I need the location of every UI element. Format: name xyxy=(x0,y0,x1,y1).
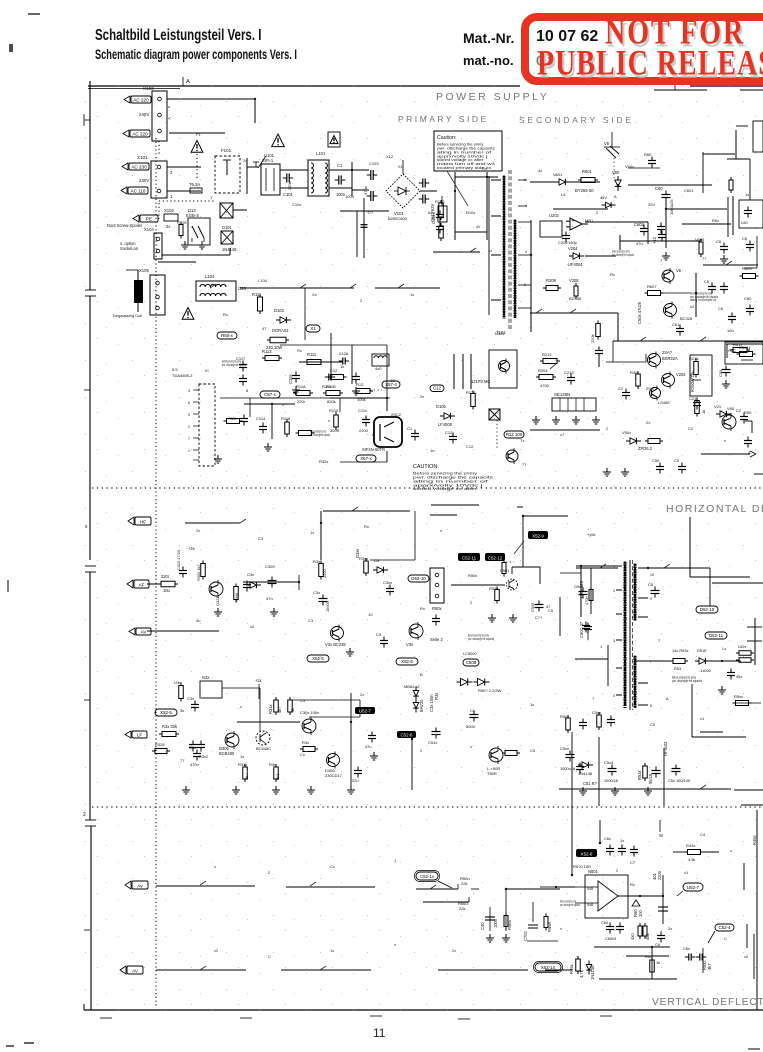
capacitor C608 xyxy=(720,283,728,294)
resistor R105 xyxy=(177,220,187,239)
svg-text:Cx: Cx xyxy=(330,864,335,869)
node right block X601 xyxy=(690,355,712,396)
ground G5 xyxy=(264,443,272,451)
resistor R316 4k7 xyxy=(268,697,282,715)
wire vd rail 956 xyxy=(626,955,669,957)
wire right verticals hd xyxy=(576,684,763,805)
capacitor C311 xyxy=(383,580,394,596)
capacitor C544 1000u16 xyxy=(560,746,575,771)
svg-text:pwr. discharge the capacits: pwr. discharge the capacits xyxy=(612,253,634,257)
svg-text:C10x: C10x xyxy=(292,202,301,207)
node row label 2 xyxy=(83,812,86,818)
node tag C123 xyxy=(430,385,444,392)
node section label PRIMARY SIDE xyxy=(398,114,489,124)
svg-text:Rx: Rx xyxy=(297,348,302,353)
capacitor C603 xyxy=(634,222,648,246)
resistor R611 xyxy=(730,342,750,353)
svg-text:77: 77 xyxy=(702,256,707,261)
resistor R532 xyxy=(634,648,688,671)
capacitor C615 xyxy=(742,236,754,252)
capacitor C116 2200 xyxy=(358,408,370,433)
resistor R328 xyxy=(152,742,170,754)
wire vd left feeds xyxy=(540,806,575,888)
svg-text:Tx: Tx xyxy=(520,438,524,443)
warning triangle W3 boxed xyxy=(328,132,340,147)
wire T501 pins right xyxy=(638,568,654,708)
node smudge prim2 xyxy=(310,430,330,437)
capacitor C601 1000u xyxy=(655,186,674,248)
resistor R513 xyxy=(695,398,706,417)
wire vd rail 947 xyxy=(594,946,670,948)
svg-text:A: A xyxy=(748,450,751,455)
node X106 tag xyxy=(306,325,320,332)
node tag C52-4 vd xyxy=(708,924,734,943)
wire sec extra 1 xyxy=(604,132,620,147)
wire v-bus 970 xyxy=(156,969,572,971)
ic N103 optocoupler xyxy=(471,331,517,388)
wire bottom rail horizontal section xyxy=(559,732,731,806)
ground G8 xyxy=(572,416,580,424)
capacitor C117 xyxy=(236,356,247,372)
node smudge cluster sec1 xyxy=(690,292,718,302)
node section label SECONDARY SIDE xyxy=(519,115,634,125)
svg-text:R31x: R31x xyxy=(268,704,273,714)
svg-text:25V: 25V xyxy=(648,202,655,207)
wire vd rail 979 xyxy=(599,978,677,980)
lamp H101 xyxy=(220,203,247,218)
capacitor C542 xyxy=(607,716,615,727)
svg-text:Rx: Rx xyxy=(610,272,615,277)
transistor V301 xyxy=(209,580,223,606)
svg-text:C52-6: C52-6 xyxy=(401,732,414,737)
choke L101 xyxy=(308,151,329,196)
wire tag leader xyxy=(506,541,524,562)
svg-text:Zx: Zx xyxy=(646,420,650,425)
node tag X57-4 xyxy=(370,381,400,390)
svg-text:x: x xyxy=(328,418,330,423)
wire osc long vertical xyxy=(350,693,352,790)
wire left border of schematic frame xyxy=(90,81,91,1010)
resistor R214 220k xyxy=(590,321,600,344)
svg-text:1x: 1x xyxy=(310,530,314,535)
wire right stub 474 xyxy=(754,473,763,475)
line filter U101 xyxy=(261,153,280,195)
transformer T501 core xyxy=(630,560,633,710)
svg-text:R113: R113 xyxy=(262,349,272,354)
node tag X67 xyxy=(356,455,376,462)
transistor V515 BA157 xyxy=(722,406,752,431)
node caution box secondary xyxy=(413,464,493,491)
svg-text:C5: C5 xyxy=(548,608,554,613)
capacitor C514 xyxy=(648,582,660,598)
wire inner dotted margin line xyxy=(155,138,157,1008)
diode V531 DN xyxy=(695,648,741,673)
wire right edge top xyxy=(727,130,750,235)
capacitor C326 xyxy=(352,767,362,784)
wire scan texture ticks xyxy=(200,248,732,970)
svg-text:x: x xyxy=(724,438,726,443)
svg-text:pwr. discharge the capacits: pwr. discharge the capacits xyxy=(672,679,702,683)
node right edge box xyxy=(753,121,763,152)
capacitor C308 xyxy=(243,581,251,592)
transformer T501 primary xyxy=(624,562,626,708)
resistor R5011 xyxy=(737,345,756,360)
connector X52 right column xyxy=(735,618,762,703)
resistor R604 100 xyxy=(632,900,643,917)
wire sec rail 2 xyxy=(620,235,700,250)
resistor R630 3k9 xyxy=(673,843,719,862)
svg-text:C6: C6 xyxy=(718,306,724,311)
capacitor C540 100n xyxy=(480,907,498,942)
svg-text:pwr. discharge the capacits: pwr. discharge the capacits xyxy=(222,363,246,367)
node mains earth tag xyxy=(107,215,158,228)
node HF input tag xyxy=(128,517,151,525)
diode V204 UF4004 xyxy=(568,246,616,267)
resistor R521 xyxy=(489,586,499,604)
ic N301 xyxy=(200,675,222,698)
resistor R111 xyxy=(252,292,263,314)
capacitor C327 47u xyxy=(365,732,378,761)
svg-text:47: 47 xyxy=(262,326,267,331)
capacitor C611 vd xyxy=(604,836,614,856)
svg-text:R3x: R3x xyxy=(434,693,439,700)
resistor R312 9k1 xyxy=(269,762,280,782)
diode V543 1N4148 xyxy=(578,762,593,776)
resistor R113 xyxy=(262,349,282,361)
resistor R606 vd xyxy=(643,923,650,940)
wire driver mid vertical xyxy=(535,597,560,636)
ground G27 xyxy=(722,380,730,388)
transistor V201 BSR32 xyxy=(648,350,678,369)
wire drive line xyxy=(560,566,618,617)
wire mosfet drain xyxy=(330,398,387,462)
ground G18 xyxy=(307,786,315,794)
resistor R11c xyxy=(296,431,315,436)
node tag X52-9 xyxy=(528,531,548,539)
degauss coil L102 xyxy=(113,280,143,318)
node W mark xyxy=(659,820,663,838)
wire prim extra v xyxy=(220,288,390,412)
transistor V311 BCB480 xyxy=(219,731,239,756)
resistor R108 220 10W xyxy=(266,337,289,350)
svg-text:x: x xyxy=(214,864,216,869)
diode V502 xyxy=(457,678,473,685)
resistor R608 4k7 xyxy=(569,956,584,978)
wire hd mid rails xyxy=(370,511,415,560)
svg-text:ating in number of: ating in number of xyxy=(690,298,716,302)
transistor V511 xyxy=(507,579,518,590)
svg-text:X1: X1 xyxy=(398,164,404,169)
node margin digit xyxy=(85,524,88,529)
node AV tag vertical 2 xyxy=(120,966,143,974)
resistor R103 xyxy=(439,223,444,241)
capacitor C611 xyxy=(672,322,684,336)
capacitor C219 xyxy=(736,408,748,424)
svg-text:Cx: Cx xyxy=(300,752,305,757)
svg-text:C12: C12 xyxy=(466,444,474,449)
capacitor C604a xyxy=(601,920,614,934)
transistor V313 xyxy=(300,710,319,735)
node smudge hd1 xyxy=(468,634,494,641)
wire degauss leads xyxy=(126,270,138,312)
ground G7 xyxy=(552,416,560,424)
svg-text:2x: 2x xyxy=(452,948,456,953)
node AC 230V tag xyxy=(122,163,149,170)
node label R50n 22k xyxy=(458,876,470,911)
wire opto left rails xyxy=(454,354,471,389)
node right box top xyxy=(739,200,763,228)
wire reg rail xyxy=(661,273,696,317)
capacitor C541 xyxy=(579,719,587,730)
inductor L103 xyxy=(372,354,389,371)
wire dotted section divider horizontal/vertical xyxy=(92,806,763,808)
capacitor C321 xyxy=(187,696,199,712)
svg-text:BAV20: BAV20 xyxy=(419,699,424,712)
ground G14 xyxy=(346,648,354,656)
capacitor C608 vd xyxy=(696,954,706,961)
op-amp N601 xyxy=(575,869,628,918)
node smudge hd2 xyxy=(672,676,702,683)
svg-text:1x: 1x xyxy=(410,292,414,297)
wire T101 pins left xyxy=(489,176,501,315)
fuse F101 T6.3A xyxy=(189,182,202,193)
transistor V606 xyxy=(662,268,682,284)
node tag X52-5a xyxy=(307,655,329,662)
svg-text:C60x 47u25: C60x 47u25 xyxy=(637,301,642,324)
material number label english xyxy=(463,53,514,68)
rubber stamp text NOT FOR xyxy=(605,13,745,54)
ground G17 xyxy=(272,786,280,794)
svg-text:C5: C5 xyxy=(530,748,536,753)
transistor V103 interlock xyxy=(186,208,210,245)
transformer T101 core xyxy=(509,170,511,330)
resistor R302 4k7 xyxy=(196,561,205,582)
diode V608 xyxy=(600,195,616,208)
wire bottom border of schematic frame xyxy=(84,1004,763,1019)
svg-text:Rx: Rx xyxy=(223,312,228,317)
title line German xyxy=(95,27,261,45)
diode V302 xyxy=(246,572,261,588)
node tag C3x xyxy=(260,391,280,398)
resistor R52x pair xyxy=(736,644,754,662)
wire arrow 454 xyxy=(701,451,756,457)
svg-text:R60: R60 xyxy=(644,152,652,157)
svg-text:IC: IC xyxy=(205,368,209,373)
node label R50x xyxy=(451,560,509,586)
resistor R118 xyxy=(224,419,243,424)
ground G12 xyxy=(214,608,222,616)
svg-text:R111: R111 xyxy=(307,352,317,357)
resistor R503 xyxy=(645,439,663,444)
svg-text:3k: 3k xyxy=(180,708,184,713)
svg-text:Cx: Cx xyxy=(470,708,475,713)
node tag U52-7 osc xyxy=(355,707,375,714)
capacitor C103 xyxy=(363,161,379,195)
svg-text:45V: 45V xyxy=(600,195,607,200)
wire vd bus2 xyxy=(423,901,469,903)
transistor V303 BC238 xyxy=(325,625,346,648)
svg-text:Rx: Rx xyxy=(364,524,369,529)
svg-text:4x0: 4x0 xyxy=(375,366,382,371)
svg-text:x: x xyxy=(394,942,396,947)
material number value english greyed xyxy=(536,53,565,68)
capacitor C212A xyxy=(339,351,349,365)
wire v-bus 885 xyxy=(156,886,479,889)
transistor V607 BC328 xyxy=(664,302,694,322)
capacitor C5xx left xyxy=(432,615,440,626)
zener V501 ZPD6.2 xyxy=(622,430,653,451)
svg-text:Rx: Rx xyxy=(630,882,635,887)
svg-text:77: 77 xyxy=(522,462,527,467)
svg-text:Rx: Rx xyxy=(420,606,425,611)
connector X103 xyxy=(139,86,167,141)
led of optocoupler xyxy=(489,409,500,450)
resistor R117 100k xyxy=(353,382,373,402)
capacitor C5011 xyxy=(718,366,731,378)
svg-text:Xx: Xx xyxy=(312,292,317,297)
capacitor C102 100n xyxy=(335,163,346,197)
transistor V501 output xyxy=(487,746,503,776)
resistor R544 xyxy=(637,741,668,781)
node label LS485 xyxy=(658,400,670,405)
capacitor C331 xyxy=(189,741,208,760)
diode V104 1N4148 xyxy=(221,225,237,252)
svg-text:1x: 1x xyxy=(745,192,749,197)
diode V210 xyxy=(714,404,731,417)
node tag X52-6 vd xyxy=(573,849,597,869)
resistor R615 xyxy=(729,177,733,193)
resistor R216 10k xyxy=(688,356,699,380)
capacitor C503 xyxy=(674,458,686,474)
ground G28 xyxy=(214,455,222,463)
node A top ruler tick xyxy=(183,77,190,86)
wire right angle xyxy=(745,421,752,433)
svg-text:C3: C3 xyxy=(258,536,264,541)
svg-text:pwr. discharge the capacits: pwr. discharge the capacits xyxy=(468,637,494,641)
svg-text:C?: C? xyxy=(368,210,374,215)
node section label VERTICAL DEFLECTION xyxy=(652,997,763,1008)
svg-text:2x: 2x xyxy=(196,528,200,533)
resistor R208 xyxy=(543,278,561,291)
resistor R307 2200 xyxy=(313,559,327,580)
node label col right osc xyxy=(429,693,439,712)
capacitor C213 xyxy=(564,370,575,385)
capacitor C309 47n xyxy=(265,564,277,601)
svg-text:C3: C3 xyxy=(308,618,314,623)
ic N102 MB104 xyxy=(540,213,594,237)
wire top border of schematic frame xyxy=(88,86,763,89)
node tag X52-5c xyxy=(155,709,177,716)
resistor R534 xyxy=(666,694,752,706)
resistor R114 220k xyxy=(293,384,313,404)
capacitor C614 xyxy=(644,152,656,168)
transformer T101 primary winding xyxy=(496,176,506,335)
wire n101 verticals xyxy=(331,333,352,384)
svg-text:x: x xyxy=(470,744,472,749)
warning triangle W4 xyxy=(182,308,194,320)
svg-text:x: x xyxy=(730,848,732,853)
node section label POWER SUPPLY xyxy=(436,91,549,103)
capacitor C121 xyxy=(445,430,457,444)
wire sec extra 3 xyxy=(744,236,757,268)
node tag R50 xyxy=(217,332,237,339)
wire prim extra rail xyxy=(0,0,1,1)
capacitor C119 xyxy=(407,426,419,441)
capacitor C531b xyxy=(718,669,742,695)
svg-text:1x: 1x xyxy=(530,702,534,707)
wire top-left corner printing mark xyxy=(6,14,40,1046)
ground G16 xyxy=(232,786,240,794)
transformer T501 secondary lower xyxy=(634,656,636,708)
capacitor C515 xyxy=(744,437,752,448)
transistor V312 crystal xyxy=(256,731,271,751)
svg-text:C115: C115 xyxy=(288,374,293,384)
svg-text:2x: 2x xyxy=(420,394,424,399)
wire sec right corner xyxy=(703,152,735,193)
wire n101 rail 404 xyxy=(244,404,295,439)
connector X102 xyxy=(164,208,178,229)
svg-text:C: C xyxy=(724,936,727,941)
material number label xyxy=(463,30,514,46)
wire bulk rail xyxy=(455,172,498,240)
node tag C508 xyxy=(463,651,479,666)
diode V503 xyxy=(474,678,490,685)
svg-text:1k: 1k xyxy=(340,364,344,369)
node X12 label xyxy=(386,154,394,159)
resistor R612 4k7 xyxy=(702,948,712,973)
svg-text:L6: L6 xyxy=(561,192,566,197)
svg-text:L60: L60 xyxy=(741,220,748,225)
svg-text:10: 10 xyxy=(368,612,373,617)
transistor V305 xyxy=(406,622,423,647)
diode V602 top xyxy=(604,141,619,178)
capacitor C603b xyxy=(652,231,666,245)
zener V208 BZX55 xyxy=(569,278,582,301)
ground G9 xyxy=(592,416,600,424)
wire opamp out xyxy=(618,875,663,924)
relay K101 xyxy=(215,148,240,193)
wire dotted section divider power/horizontal xyxy=(92,487,763,489)
wire rail 341 xyxy=(613,340,763,342)
capacitor C216 xyxy=(618,386,630,400)
svg-text:C: C xyxy=(268,954,271,959)
capacitor C217 xyxy=(689,396,701,410)
resistor R315 xyxy=(300,740,318,752)
capacitor C505 xyxy=(530,601,550,613)
wire X101 pin1 xyxy=(167,191,201,199)
transistor V306 230CD17 xyxy=(325,752,343,779)
svg-text:R10x: R10x xyxy=(466,210,475,215)
wire X101 pin2 xyxy=(167,167,201,175)
ground G15 xyxy=(182,786,190,794)
node cluster C502 R55A xyxy=(523,902,558,941)
wire dark vertical right xyxy=(587,517,763,583)
ground G21 xyxy=(509,614,517,622)
resistor R313 xyxy=(359,556,368,576)
capacitor C312 xyxy=(376,632,388,648)
wire hf line xyxy=(185,511,410,560)
wire opamp feedback rail xyxy=(585,222,648,244)
svg-text:Lx: Lx xyxy=(722,646,726,651)
wire osc right vertical xyxy=(411,739,413,790)
svg-text:B: B xyxy=(420,672,423,677)
wire flyback right rail xyxy=(648,568,710,606)
node AC 110V tag xyxy=(121,187,148,194)
node label seite xyxy=(430,637,443,642)
svg-text:G: G xyxy=(372,432,375,437)
capacitor C116b xyxy=(352,373,360,396)
capacitor C214 xyxy=(595,347,603,368)
